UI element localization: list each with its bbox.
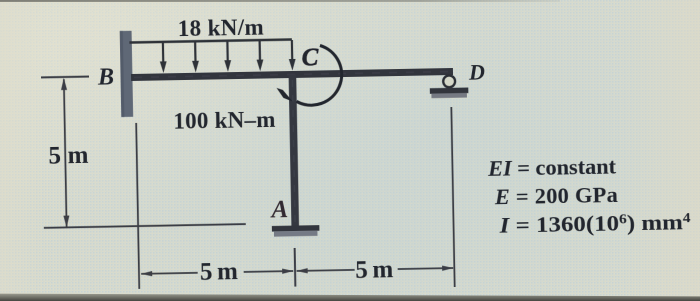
svg-text:D: D [468, 59, 485, 84]
bottom dim line right span [297, 270, 355, 271]
load arrow 5 [288, 40, 295, 71]
load arrow 2 [192, 42, 199, 73]
up arrow [61, 78, 67, 90]
beam B-D [131, 68, 453, 81]
svg-text:EI = constant: EI = constant [487, 154, 617, 181]
column C-A [289, 74, 299, 226]
photo top edge line [0, 0, 1, 1]
svg-text:100 kN–m: 100 kN–m [173, 107, 275, 134]
left dim tick at B level [41, 75, 89, 78]
svg-text:B: B [97, 64, 114, 90]
moment arrowhead [277, 88, 293, 102]
svg-text:A: A [269, 196, 288, 223]
distributed load top line [129, 39, 291, 42]
left extension line [136, 123, 139, 289]
wall support at B [120, 31, 133, 117]
center tick [294, 248, 297, 287]
down arrow [63, 216, 69, 228]
fixed support base at A [272, 225, 320, 231]
load arrow 1 [159, 42, 166, 73]
svg-text:5 m: 5 m [200, 258, 239, 286]
roller base block at D [430, 88, 469, 94]
ground line [44, 224, 246, 228]
svg-text:C: C [301, 44, 319, 71]
left vertical dim line [64, 79, 67, 226]
load arrow 4 [256, 41, 263, 72]
right extension line [451, 107, 454, 287]
svg-text:E = 200 GPa: E = 200 GPa [494, 182, 618, 209]
svg-text:5 m: 5 m [48, 142, 89, 170]
svg-text:18 kN/m: 18 kN/m [177, 15, 263, 42]
svg-text:I = 1360(106) mm4: I = 1360(106) mm4 [498, 209, 691, 238]
moment arc at C [295, 45, 342, 105]
bottom dim line left span [141, 273, 197, 274]
roller circle at D [443, 75, 455, 87]
photo bottom dark band [0, 294, 700, 301]
svg-text:5 m: 5 m [355, 256, 394, 284]
load arrow 3 [224, 41, 231, 72]
